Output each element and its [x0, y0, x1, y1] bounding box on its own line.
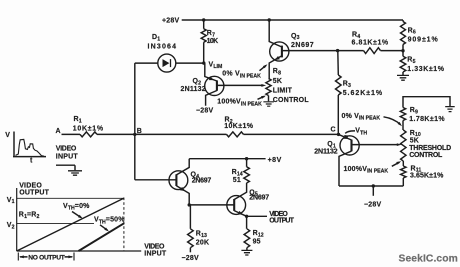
- leader VTH=50%: [100, 225, 109, 232]
- transistor Q2: [205, 63, 263, 106]
- svg-text:10K: 10K: [207, 38, 219, 45]
- svg-text:2N697: 2N697: [249, 195, 269, 202]
- svg-text:CONTROL: CONTROL: [273, 97, 310, 104]
- video waveform icon: [5, 132, 46, 165]
- resistor R5: [400, 51, 406, 75]
- svg-text:2N1132: 2N1132: [314, 149, 337, 156]
- svg-text:+28V: +28V: [162, 18, 179, 25]
- label graph VIDEO OUTPUT: [19, 182, 49, 196]
- svg-text:INPUT: INPUT: [144, 251, 167, 258]
- resistor R14: [244, 159, 250, 183]
- wire threshold top rail: [403, 97, 450, 108]
- wire -28V stub: [372, 186, 374, 196]
- wire left vertical B: [134, 63, 136, 180]
- label Q4: [191, 172, 212, 185]
- graph V2 line: [17, 223, 94, 225]
- node VLIM: [202, 61, 205, 64]
- Q2 emitter arrow: [209, 77, 214, 81]
- potentiometer R10: [401, 130, 406, 161]
- svg-text:2N697: 2N697: [291, 42, 314, 49]
- label Q3: [291, 33, 314, 49]
- svg-text:5K: 5K: [410, 138, 419, 145]
- ground video input: [56, 165, 82, 175]
- node R4 right junction: [401, 49, 404, 52]
- wire D1 right: [176, 62, 204, 64]
- resistor R9: [400, 108, 405, 131]
- svg-text:INPUT: INPUT: [56, 153, 79, 160]
- label R1 value: [73, 116, 104, 132]
- svg-text:A: A: [56, 128, 61, 135]
- resistor R6: [401, 20, 406, 51]
- potentiometer R8: [266, 79, 271, 96]
- svg-text:IN3064: IN3064: [148, 44, 178, 51]
- wire +8V rail: [189, 158, 265, 160]
- label graph VIDEO INPUT: [144, 244, 167, 258]
- node junction Q3 collector top: [268, 18, 271, 21]
- svg-text:6.81K±1%: 6.81K±1%: [352, 40, 389, 47]
- svg-text:VIDEO: VIDEO: [56, 145, 77, 152]
- wire B to Q4 base: [135, 179, 177, 181]
- label R3 value: [343, 80, 383, 96]
- ground R8: [263, 96, 274, 107]
- label Q2: [181, 78, 206, 93]
- label Q5: [249, 189, 269, 201]
- svg-text:95: 95: [253, 238, 261, 245]
- wire bottom rail -28V: [339, 185, 403, 187]
- label R9 value: [409, 107, 445, 123]
- leader VTH=0%: [72, 212, 83, 219]
- svg-text:C: C: [331, 126, 336, 133]
- resistor R7: [201, 20, 206, 63]
- svg-text:VIDEO: VIDEO: [19, 182, 42, 189]
- resistor R11: [401, 161, 406, 186]
- leader 0% lower: [384, 117, 403, 127]
- node Q5 emitter: [245, 215, 248, 218]
- svg-text:51: 51: [233, 177, 241, 184]
- wire Q4 emitter to Q5 base: [189, 204, 234, 206]
- graph ramp VTH=50%: [79, 223, 125, 251]
- label R7 value: [207, 30, 219, 45]
- resistor R4: [338, 48, 403, 54]
- svg-text:SeekIC.com: SeekIC.com: [399, 254, 458, 265]
- label VTH: [344, 128, 368, 139]
- resistor R12: [244, 216, 250, 250]
- graph dashed line: [123, 198, 125, 252]
- svg-text:5K: 5K: [273, 78, 282, 85]
- transistor Q3: [269, 20, 337, 79]
- label R2 value: [224, 117, 254, 130]
- graph ramp VTH=0%: [17, 198, 124, 251]
- svg-text:2N697: 2N697: [192, 178, 212, 185]
- ground R5: [397, 75, 409, 80]
- svg-text:3.65K±1%: 3.65K±1%: [410, 173, 444, 180]
- transistor Q1: [339, 134, 398, 186]
- label R13 value: [196, 231, 209, 247]
- node Q4 emitter: [188, 203, 191, 206]
- resistor R2: [135, 132, 339, 137]
- dimension NO OUTPUT: [18, 253, 74, 262]
- svg-text:10K±1%: 10K±1%: [73, 125, 104, 132]
- label VIDEO INPUT source: [56, 145, 79, 160]
- wire D1 left: [135, 62, 158, 64]
- label VIDEO OUTPUT: [269, 211, 295, 225]
- wiper arrow into R10: [397, 143, 402, 146]
- graph V1 line: [17, 197, 124, 199]
- label R11 value: [410, 165, 444, 179]
- Q5 emitter arrow: [238, 211, 243, 215]
- leader 100% upper: [258, 96, 267, 100]
- ground R12: [241, 250, 252, 255]
- label R6 value: [408, 27, 439, 43]
- svg-text:LIMIT: LIMIT: [273, 88, 293, 95]
- leader 0% upper: [260, 64, 268, 71]
- svg-text:2N1132: 2N1132: [181, 86, 206, 93]
- svg-text:−28V: −28V: [182, 255, 199, 262]
- svg-text:OUTPUT: OUTPUT: [269, 218, 295, 225]
- label D1: [148, 34, 178, 51]
- resistor R1: [62, 132, 135, 137]
- svg-text:5.62K±1%: 5.62K±1%: [343, 90, 383, 97]
- svg-text:−28V: −28V: [196, 107, 213, 114]
- svg-text:OUTPUT: OUTPUT: [19, 189, 49, 196]
- svg-text:909±1%: 909±1%: [408, 36, 439, 43]
- Q3 emitter arrow: [275, 56, 280, 60]
- label R14 value: [232, 169, 243, 184]
- transistor Q5: [227, 183, 247, 216]
- wiper arrow into R8: [261, 84, 266, 87]
- node R14 top: [245, 157, 248, 160]
- svg-text:−28V: −28V: [364, 202, 381, 209]
- resistor R3: [335, 51, 341, 135]
- label R10: [409, 130, 451, 159]
- node -28V tap: [372, 184, 375, 187]
- label R5 value: [407, 57, 444, 73]
- resistor R13: [188, 205, 194, 252]
- graph axes: [17, 188, 142, 251]
- svg-text:1.78K±1%: 1.78K±1%: [409, 116, 445, 123]
- label R12 value: [253, 230, 264, 245]
- node R4 left junction: [336, 49, 339, 52]
- wire video output: [247, 215, 267, 217]
- svg-text:CONTROL: CONTROL: [409, 152, 443, 159]
- label R8: [273, 68, 310, 104]
- svg-text:20K: 20K: [196, 239, 209, 246]
- svg-text:V: V: [5, 132, 10, 139]
- label R4 value: [352, 31, 389, 46]
- Q4 emitter arrow: [180, 187, 185, 191]
- diode D1: [158, 54, 176, 72]
- wire +28V rail: [182, 19, 403, 21]
- node C: [337, 133, 340, 136]
- node junction R7 top: [202, 18, 205, 21]
- svg-text:10K±1%: 10K±1%: [224, 123, 254, 130]
- svg-text:1.33K±1%: 1.33K±1%: [407, 66, 444, 73]
- label Q1: [314, 141, 337, 156]
- node B: [133, 133, 136, 136]
- Q1 emitter arrow: [344, 135, 349, 139]
- leader 100% lower: [392, 161, 401, 166]
- svg-text:VIDEO: VIDEO: [144, 244, 165, 251]
- transistor Q4: [169, 159, 189, 205]
- svg-text:+8V: +8V: [268, 157, 282, 164]
- svg-text:NO OUTPUT: NO OUTPUT: [28, 254, 64, 261]
- ground threshold rail: [445, 107, 455, 112]
